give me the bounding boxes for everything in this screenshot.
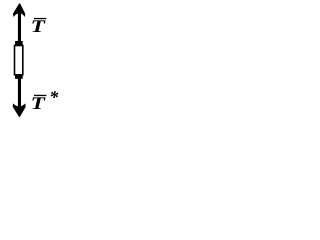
arrowhead of upward force vector T xyxy=(13,4,25,18)
overline of label T (top) xyxy=(34,18,46,19)
wire shaft of upward force vector T xyxy=(18,12,21,43)
svg-text:T: T xyxy=(31,16,47,36)
svg-text:T: T xyxy=(31,93,47,113)
bottom end-cap crossbar xyxy=(15,75,23,79)
overline of label T* (bottom) xyxy=(34,95,46,96)
top end-cap crossbar xyxy=(15,41,23,45)
background xyxy=(0,0,63,120)
wire shaft of downward force vector T* xyxy=(18,78,21,107)
arrowhead of downward force vector T* xyxy=(13,103,26,117)
link bar (rectangle body) xyxy=(15,46,23,75)
svg-text:*: * xyxy=(49,87,59,107)
